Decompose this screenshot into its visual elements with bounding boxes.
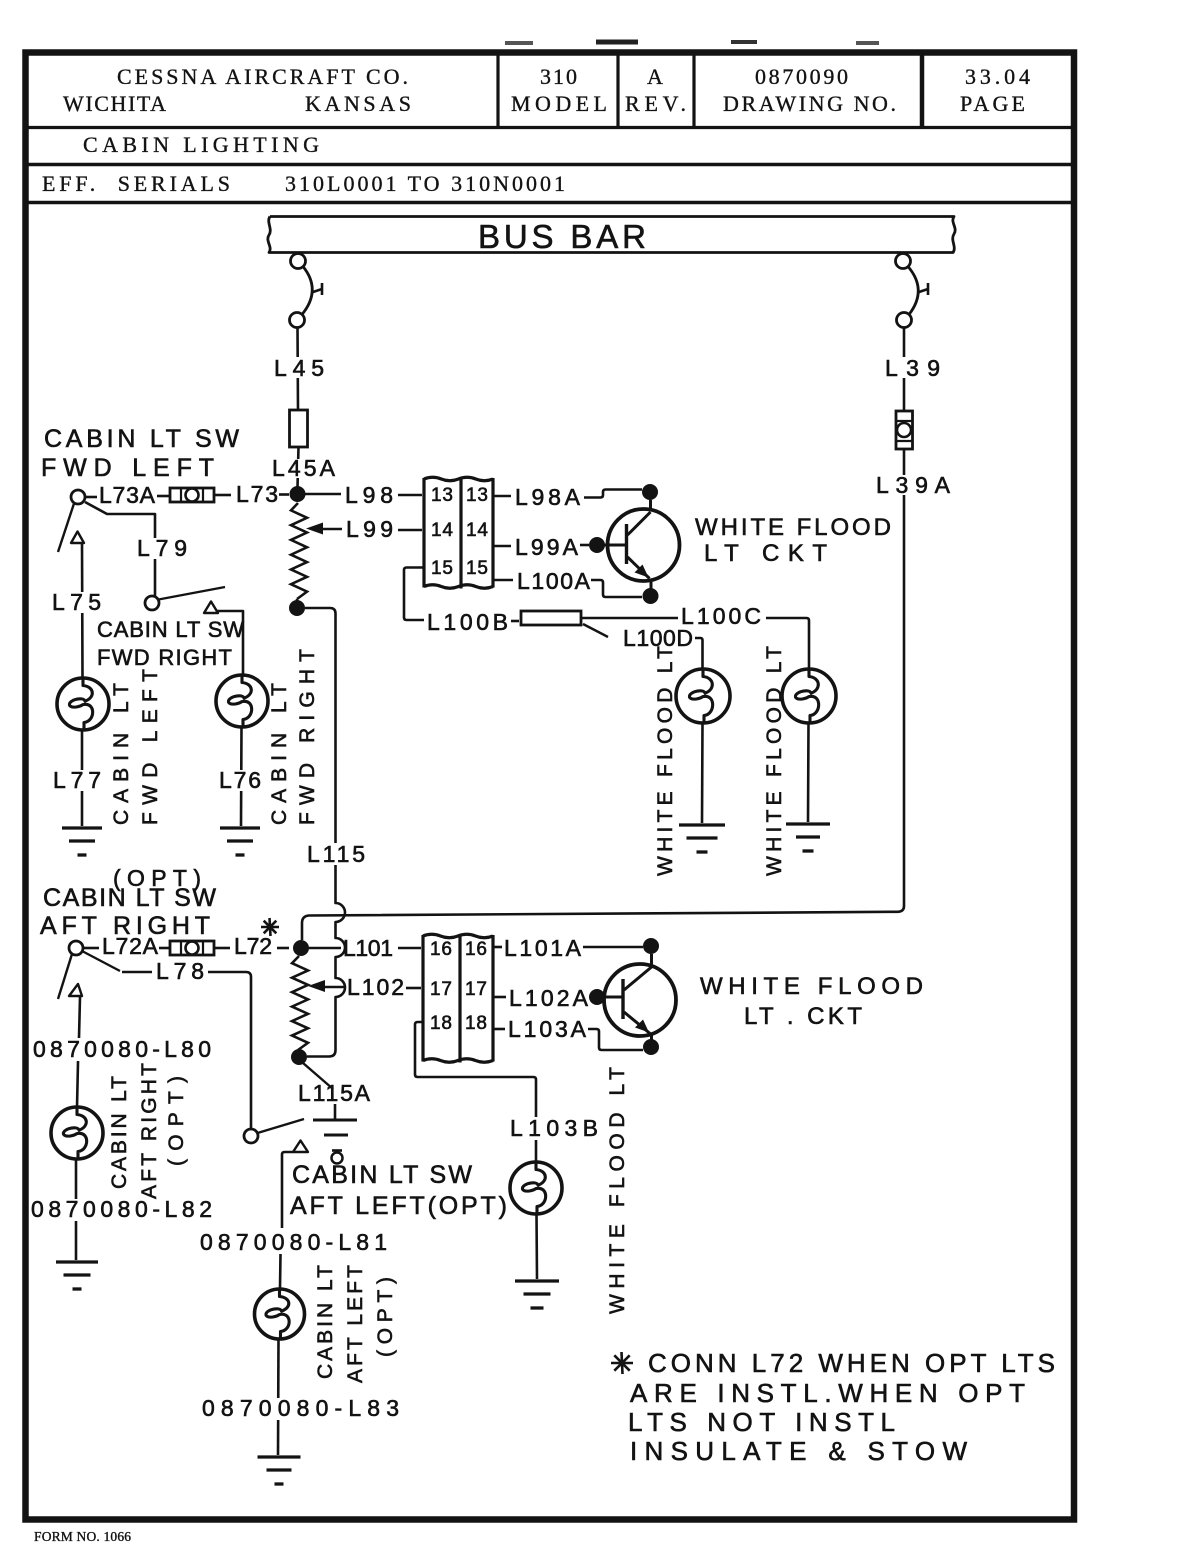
switch SW2 CABIN LT SW FWD RIGHT - pivot [145, 596, 159, 610]
wire L75 switch to lamp L77 [81, 543, 84, 678]
svg-text:L103A: L103A [508, 1016, 587, 1042]
svg-text:L98: L98 [345, 482, 393, 508]
svg-text:16: 16 [465, 939, 487, 960]
note asterisk [611, 1362, 633, 1365]
svg-text:L102A: L102A [509, 985, 589, 1011]
wire L100D branch to lamp WF1 [583, 624, 608, 637]
wire lamp L81 to ground [277, 1339, 280, 1455]
lamp L80 CABIN LT AFT RIGHT OPT [51, 1107, 103, 1159]
svg-text:L100A: L100A [517, 568, 591, 594]
label L76 [215, 770, 264, 791]
svg-text:CABIN LT SW: CABIN LT SW [292, 1161, 472, 1189]
junction node L45A (pot top) [290, 486, 306, 502]
wire L98A connector to transistor collector [493, 495, 511, 498]
svg-text:14: 14 [466, 520, 488, 541]
svg-text:L77: L77 [53, 767, 101, 793]
svg-text:0870090: 0870090 [755, 64, 848, 89]
wire L100B connector pin15 to fuse [404, 568, 424, 621]
wire lamp L77 to ground [81, 730, 84, 826]
junction node aft pot bottom / L115A [291, 1049, 307, 1065]
switch SW3 throw contact (triangle) [69, 984, 82, 996]
svg-text:PAGE: PAGE [960, 91, 1025, 116]
wire L45A fuse to junction [298, 447, 299, 487]
svg-text:13: 13 [466, 485, 488, 506]
lamp L103B white flood [510, 1162, 562, 1214]
fuseholder on L72 line [170, 941, 214, 955]
label 0870080-L80 [30, 1039, 215, 1061]
svg-text:AFT LEFT(OPT): AFT LEFT(OPT) [290, 1192, 507, 1220]
wire switch SW3 to lamp L80 [79, 997, 80, 1038]
wire pin18 to lamp L103B [415, 1022, 536, 1162]
svg-text:WHITE FLOOD: WHITE FLOOD [700, 973, 923, 1000]
asterisk note marker [261, 926, 279, 929]
fuseholder L39 vertical [896, 411, 913, 449]
wire L73A label to switch [85, 496, 97, 499]
svg-text:WHITE FLOOD: WHITE FLOOD [695, 514, 891, 541]
wire L73 label to fuseholder [215, 494, 231, 497]
svg-text:L75: L75 [52, 589, 101, 615]
svg-text:L99: L99 [346, 516, 393, 542]
svg-text:15: 15 [466, 558, 488, 579]
wire lamp L80 to ground [75, 1159, 78, 1260]
fuse L45 body [290, 410, 308, 447]
svg-text:CABIN LT SW: CABIN LT SW [43, 884, 216, 912]
wire switch SW4 to lamp L81 [282, 1152, 293, 1228]
svg-text:L45A: L45A [272, 455, 336, 481]
wire L100A connector to transistor emitter [493, 579, 513, 582]
svg-text:L76: L76 [219, 767, 261, 793]
switch SW1 CABIN LT SW FWD LEFT - pivot [71, 490, 85, 504]
svg-text:L72: L72 [234, 933, 272, 959]
wire lamp WF1 to ground [701, 723, 704, 823]
svg-text:L73: L73 [236, 481, 278, 507]
wire L103A connector to transistor Q2 emitter [493, 1028, 505, 1031]
wire L99 label to connector [398, 529, 422, 532]
lamp WF2 white flood [782, 669, 836, 723]
ground symbol below L103B [515, 1279, 559, 1282]
wire L73 junction to label [279, 493, 289, 496]
wiper arrow into pot R1 [306, 523, 323, 535]
wire lamp WF2 to ground [807, 723, 810, 822]
label L39A [872, 475, 954, 495]
switch SW1 lever [58, 504, 74, 553]
ground symbol below L77 [62, 826, 102, 829]
svg-text:EFF. SERIALS: EFF. SERIALS [42, 171, 230, 196]
label L45A [268, 459, 338, 478]
circuit breaker CB-L45 [291, 254, 306, 269]
svg-text:14: 14 [431, 520, 453, 541]
svg-text:MODEL: MODEL [511, 91, 607, 116]
svg-text:16: 16 [430, 939, 452, 960]
transistor Q2 white flood light circuit (aft) [604, 964, 676, 1036]
wire L98 junction to connector [305, 493, 341, 496]
svg-text:L101: L101 [343, 935, 393, 961]
switch SW4 throw contact (triangle) [293, 1141, 308, 1153]
svg-text:L101A: L101A [504, 935, 582, 961]
svg-text:17: 17 [430, 979, 452, 1000]
svg-text:L73A: L73A [99, 482, 156, 508]
svg-text:FWD RIGHT: FWD RIGHT [296, 649, 319, 825]
wire L79 switch SW1 to switch SW2 [85, 502, 155, 596]
switch SW2 throw contact (triangle) [204, 602, 218, 614]
label 0870080-L81 [196, 1232, 391, 1254]
svg-text:L102: L102 [347, 974, 404, 1000]
svg-text:L79: L79 [137, 535, 187, 561]
label L79 [133, 538, 191, 559]
wire L39 breaker to fuseholder [903, 328, 906, 412]
svg-text:17: 17 [465, 979, 487, 1000]
svg-text:CABIN LT SW: CABIN LT SW [97, 617, 244, 642]
potentiometer R1 body (dimmer) [291, 503, 307, 599]
label L115 [303, 843, 369, 865]
switch SW4 other contact (small circle) [332, 1153, 343, 1164]
svg-text:0870080-L80: 0870080-L80 [33, 1036, 211, 1062]
switch SW3 lever [58, 954, 72, 999]
svg-text:CABIN LT SW: CABIN LT SW [44, 425, 239, 453]
svg-text:15: 15 [431, 558, 453, 579]
junction node pot bottom / L115 [289, 600, 305, 616]
label L75 [48, 592, 105, 613]
svg-text:WICHITA: WICHITA [63, 91, 166, 116]
svg-text:18: 18 [430, 1013, 452, 1034]
svg-text:310: 310 [540, 64, 577, 89]
wire L99A connector to transistor base [493, 545, 511, 548]
svg-text:L45: L45 [274, 355, 324, 381]
label L45 [270, 357, 326, 378]
ground symbol below L76 [220, 826, 260, 829]
wire L100C fuse to lamp WF2 [581, 617, 678, 620]
wire L102A connector to transistor Q2 base [493, 996, 506, 999]
wire L115 from fwd pot junction down to aft pot junction (with crossover hops) [305, 608, 345, 1057]
label L39 [881, 357, 944, 378]
svg-text:18: 18 [465, 1013, 487, 1034]
label 0870080-L82 [30, 1199, 216, 1221]
wire L45 from breaker to fuse [296, 328, 299, 411]
svg-text:AFT RIGHT: AFT RIGHT [138, 1063, 161, 1199]
ground symbol below L80 [56, 1260, 98, 1263]
transistor Q1 white flood light circuit [608, 509, 680, 581]
connector J1 block pins 13-15 [424, 477, 493, 481]
lamp L77 CABIN LT FWD LEFT [57, 678, 109, 730]
ground symbol below WF2 [786, 822, 830, 825]
svg-text:0870080-L83: 0870080-L83 [202, 1395, 399, 1421]
svg-text:0870080-L82: 0870080-L82 [31, 1196, 212, 1222]
wire lamp L76 to ground [240, 727, 243, 826]
switch SW1 throw contact (triangle) [71, 532, 84, 544]
wire L72 fuseholder to junction [214, 947, 230, 950]
wire L72A switch to fuseholder [83, 947, 99, 950]
label 0870080-L83 [198, 1398, 403, 1420]
junction node L72 (aft pot top) [293, 940, 309, 956]
label L103B [506, 1117, 602, 1140]
lamp WF1 white flood [676, 669, 730, 723]
wire pot bottom to junction [296, 599, 299, 601]
scan marks above border [505, 41, 533, 45]
svg-text:FWD RIGHT: FWD RIGHT [97, 645, 232, 670]
ground symbol L115A [334, 1104, 337, 1119]
lamp L81 CABIN LT AFT LEFT OPT [255, 1289, 305, 1339]
wire L102 label to connector [406, 987, 421, 990]
wire SW2 to lamp L76 [216, 611, 243, 675]
ground symbol below WF1 [679, 823, 725, 826]
wire L78 switch SW3 to switch SW4 [82, 951, 120, 971]
switch SW2 lever [159, 587, 226, 600]
potentiometer R2 body (aft dimmer) [292, 956, 308, 1050]
switch SW4 CABIN LT SW AFT LEFT - pivot [244, 1129, 258, 1143]
circuit breaker CB-L39 [896, 254, 911, 269]
svg-text:L72A: L72A [102, 933, 159, 959]
svg-text:L115A: L115A [298, 1080, 371, 1106]
bus bar [268, 217, 955, 253]
wire diagonal junction to L115A ground [303, 1063, 333, 1089]
svg-text:FORM NO. 1066: FORM NO. 1066 [34, 1529, 131, 1544]
lamp L76 CABIN LT FWD RIGHT [216, 675, 268, 727]
svg-text:ARE INSTL.WHEN OPT: ARE INSTL.WHEN OPT [630, 1378, 1025, 1408]
svg-text:L78: L78 [156, 958, 204, 984]
svg-text:AFT LEFT: AFT LEFT [344, 1265, 367, 1383]
switch SW4 lever [258, 1119, 305, 1133]
svg-text:33.04: 33.04 [965, 64, 1030, 89]
title block dividers [28, 126, 1071, 129]
label L77 [49, 770, 105, 791]
wire L101A connector to transistor Q2 collector [493, 946, 502, 949]
svg-text:L100C: L100C [681, 603, 761, 629]
svg-text:L99A: L99A [515, 534, 579, 560]
fuse on L100B line [521, 611, 581, 625]
switch SW3 CABIN LT SW AFT RIGHT - pivot [69, 941, 83, 955]
svg-text:13: 13 [431, 485, 453, 506]
wire lamp L103B to ground [535, 1214, 538, 1279]
connector J2 block pins 16-18 [423, 934, 493, 938]
svg-text:0870080-L81: 0870080-L81 [200, 1229, 387, 1255]
wire L101 junction to connector [309, 947, 341, 950]
fuseholder on L73 line [170, 488, 214, 502]
svg-text:L39: L39 [885, 355, 940, 381]
wire L39A down right side and across to aft circuit [302, 449, 904, 940]
svg-text:CONN L72 WHEN OPT LTS: CONN L72 WHEN OPT LTS [648, 1348, 1055, 1378]
svg-text:A: A [647, 64, 663, 89]
svg-text:L115: L115 [307, 841, 365, 867]
ground symbol below L81 [258, 1455, 301, 1458]
wiper arrow into pot R2 [308, 980, 325, 992]
svg-text:L98A: L98A [515, 484, 581, 510]
svg-text:L100B: L100B [427, 609, 508, 635]
wire L73A fuseholder to label [157, 495, 170, 498]
svg-text:INSULATE & STOW: INSULATE & STOW [630, 1436, 967, 1466]
